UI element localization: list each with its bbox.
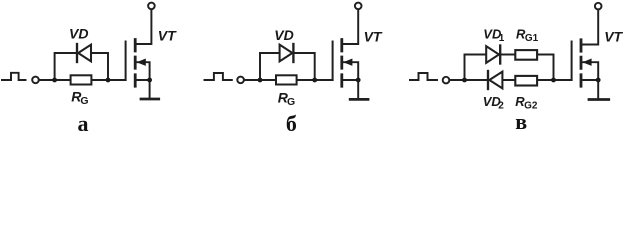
- svg-text:G: G: [287, 96, 295, 108]
- svg-text:G1: G1: [525, 33, 539, 44]
- svg-text:VT: VT: [158, 27, 177, 43]
- svg-text:G: G: [80, 95, 88, 107]
- svg-text:2: 2: [498, 101, 504, 112]
- svg-text:VT: VT: [604, 28, 623, 44]
- svg-text:VD: VD: [274, 27, 293, 43]
- svg-text:а: а: [78, 111, 89, 136]
- svg-text:1: 1: [499, 33, 505, 44]
- svg-text:VD: VD: [69, 26, 88, 42]
- svg-text:VT: VT: [364, 28, 383, 44]
- svg-text:б: б: [286, 111, 297, 136]
- svg-text:в: в: [515, 109, 527, 134]
